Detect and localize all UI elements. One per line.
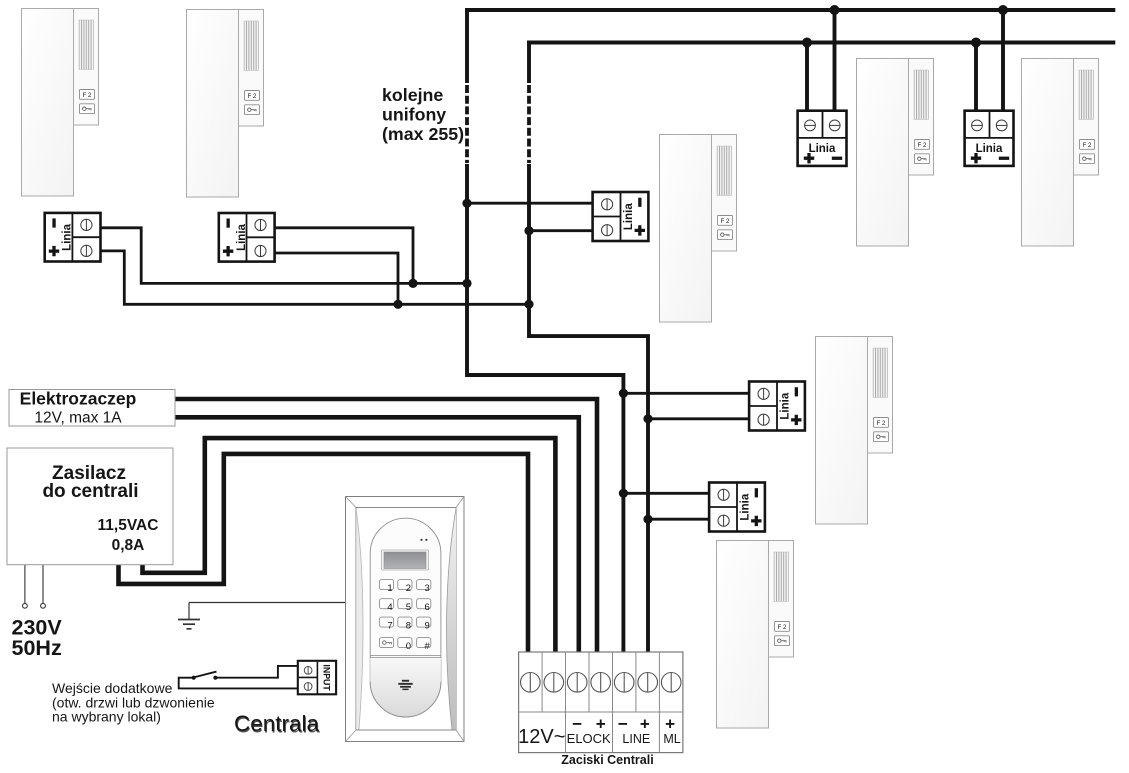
svg-text:3: 3 (425, 583, 430, 594)
svg-text:+: + (640, 715, 650, 734)
svg-text:#: # (425, 641, 431, 652)
svg-text:kolejne: kolejne (382, 85, 443, 105)
svg-text:Centrala: Centrala (234, 711, 320, 736)
svg-text:4: 4 (387, 602, 392, 613)
svg-text:1: 1 (387, 583, 392, 594)
svg-text:50Hz: 50Hz (12, 636, 62, 660)
svg-text:8: 8 (406, 620, 411, 631)
svg-text:LINE: LINE (622, 732, 650, 746)
svg-text:INPUT: INPUT (321, 664, 331, 691)
svg-text:9: 9 (425, 620, 430, 631)
svg-text:2: 2 (406, 583, 411, 594)
svg-text:Zaciski Centrali: Zaciski Centrali (561, 753, 653, 767)
svg-text:12V, max 1A: 12V, max 1A (34, 410, 122, 427)
svg-text:ML: ML (663, 732, 680, 746)
svg-text:Elektrozaczep: Elektrozaczep (20, 389, 137, 409)
svg-text:na wybrany lokal): na wybrany lokal) (52, 709, 161, 725)
svg-text:0,8A: 0,8A (112, 537, 145, 554)
svg-text:5: 5 (406, 602, 411, 613)
svg-text:do centrali: do centrali (42, 481, 138, 502)
svg-text:7: 7 (387, 620, 392, 631)
svg-text:6: 6 (425, 602, 430, 613)
svg-text:−: − (572, 715, 582, 734)
svg-text:0: 0 (406, 641, 411, 652)
svg-text:+: + (596, 715, 606, 734)
svg-text:(max 255): (max 255) (382, 124, 464, 144)
svg-text:unifony: unifony (382, 105, 446, 125)
svg-text:11,5VAC: 11,5VAC (98, 517, 159, 534)
svg-text:−: − (618, 715, 628, 734)
svg-text:12V~: 12V~ (518, 726, 565, 748)
svg-text:+: + (665, 715, 675, 734)
